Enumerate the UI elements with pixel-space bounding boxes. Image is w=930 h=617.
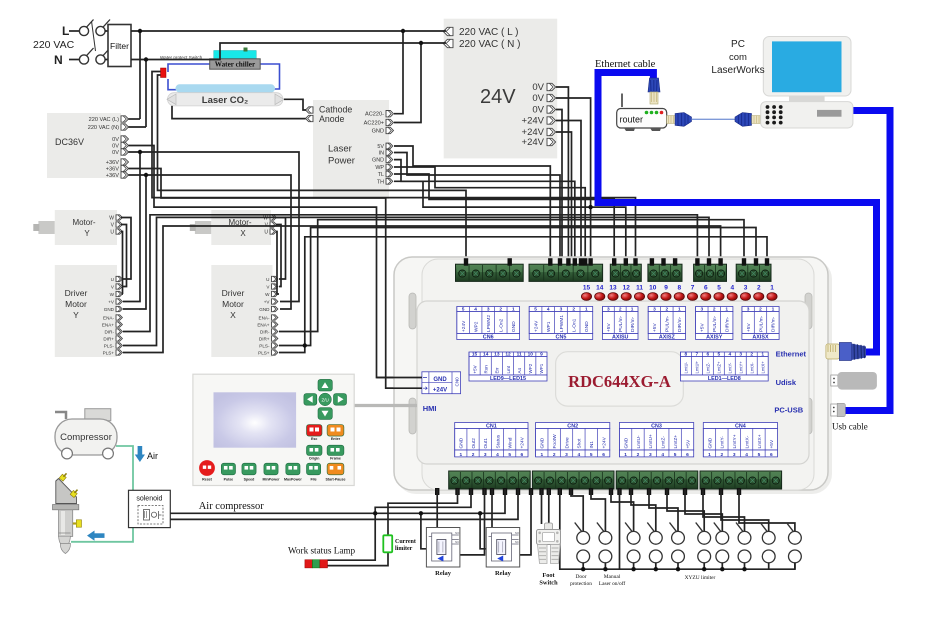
terminal block AXISY (694, 264, 727, 281)
switch S5 (672, 531, 685, 544)
junction dots bottom (419, 511, 423, 515)
svg-text:3: 3 (747, 307, 750, 313)
svg-text:8: 8 (685, 352, 688, 358)
svg-text:2: 2 (619, 307, 622, 313)
svg-text:+24V: +24V (522, 137, 545, 148)
svg-text:WP1: WP1 (546, 321, 552, 332)
svg-text:GND: GND (540, 437, 546, 448)
svg-text:13: 13 (494, 352, 500, 358)
RJ45 connector pair between router and PC (667, 116, 676, 124)
svg-text:5: 5 (717, 285, 721, 292)
svg-text:LmtU-: LmtU- (636, 435, 642, 448)
mounting slots (409, 293, 416, 329)
svg-text:+5V: +5V (606, 323, 612, 332)
svg-text:L-On1: L-On1 (571, 318, 577, 332)
svg-text:2: 2 (666, 307, 669, 313)
connector table LED9-LED15 (469, 352, 547, 357)
svg-text:3: 3 (733, 452, 736, 458)
wire L to laser AC220- (394, 31, 403, 114)
connector table CN0 (HMI) (422, 372, 461, 394)
svg-text:Driver: Driver (222, 288, 245, 298)
svg-text:+V: +V (264, 300, 271, 305)
connector table AXISZ (648, 307, 685, 312)
svg-text:GND: GND (511, 321, 517, 332)
bottom terminal strip (449, 471, 531, 489)
svg-text:DC36V: DC36V (55, 137, 84, 147)
wire to HMI GND (129, 146, 422, 378)
status LEDs row (581, 293, 591, 301)
wire to switch 4 (631, 489, 656, 531)
svg-text:solenoid: solenoid (136, 496, 162, 503)
svg-text:+24V: +24V (520, 436, 526, 448)
wire 24V 0V a (556, 87, 568, 263)
svg-text:LED9—LED15: LED9—LED15 (490, 376, 526, 382)
svg-text:3: 3 (607, 307, 610, 313)
svg-text:1: 1 (678, 307, 681, 313)
svg-text:PC-USB: PC-USB (774, 406, 803, 415)
svg-text:LmtU+: LmtU+ (695, 360, 700, 373)
svg-text:XYZU limiter: XYZU limiter (685, 575, 716, 581)
svg-text:LmtU-: LmtU- (684, 361, 689, 373)
svg-text:Manual: Manual (604, 574, 621, 580)
svg-text:3: 3 (484, 452, 487, 458)
svg-text:GND: GND (433, 377, 447, 383)
svg-text:LPWM2: LPWM2 (486, 315, 492, 332)
terminal block AXISZ (648, 264, 682, 281)
svg-text:IN: IN (379, 151, 384, 157)
wire 36V trunk to driverY GND (123, 175, 146, 309)
air tube compressor-solenoid (116, 446, 133, 490)
svg-text:11: 11 (517, 352, 522, 358)
wire switch common feed 2 (619, 489, 621, 569)
wire laser anode (172, 106, 306, 119)
svg-text:4: 4 (547, 307, 550, 313)
svg-text:Lmt: Lmt (506, 365, 511, 373)
solenoid valve (129, 490, 171, 527)
wire to switch 3 (611, 489, 634, 531)
wire to foot switch a (541, 489, 543, 524)
svg-text:+5V: +5V (685, 439, 691, 448)
junction dots (138, 29, 142, 33)
svg-text:DIR/m-: DIR/m- (677, 316, 683, 332)
svg-text:2: 2 (572, 307, 575, 313)
svg-text:220 VAC ( N ): 220 VAC ( N ) (459, 39, 521, 50)
wire to foot switch b (548, 489, 550, 524)
svg-text:Laser CO₂: Laser CO₂ (202, 95, 248, 106)
svg-text:Origin: Origin (309, 457, 320, 461)
svg-text:GND: GND (707, 437, 713, 448)
svg-text:N: N (54, 53, 63, 67)
HMI Esc button (307, 425, 323, 437)
wire N trunk down (145, 60, 147, 128)
terminal block CN5 (529, 264, 603, 281)
power supply 24V (444, 19, 558, 159)
wire L to switch (69, 30, 80, 32)
PC monitor (763, 37, 851, 97)
connector table AXISY (696, 307, 733, 312)
svg-text:GND: GND (372, 129, 384, 135)
ethernet RJ45 plug into controller (826, 344, 840, 359)
svg-text:1: 1 (585, 307, 588, 313)
switch mechanical link (92, 21, 96, 51)
svg-text:File: File (310, 477, 316, 481)
svg-text:PLS-: PLS- (259, 344, 270, 349)
power supply DC36V (47, 113, 121, 178)
svg-text:Out1: Out1 (483, 438, 489, 449)
connector table LED1-LED8 (680, 352, 768, 357)
svg-text:W: W (263, 216, 268, 222)
wire filter-N to 24V PSU (131, 43, 446, 60)
svg-text:1: 1 (761, 352, 764, 358)
svg-text:PUL/m-: PUL/m- (618, 315, 624, 332)
svg-text:+5V: +5V (652, 323, 658, 332)
svg-text:PLS+: PLS+ (103, 351, 115, 356)
svg-text:13: 13 (609, 285, 617, 292)
svg-text:DIR+: DIR+ (259, 337, 270, 342)
wire to HMI +24V (129, 169, 422, 389)
svg-text:4: 4 (745, 452, 748, 458)
svg-text:DIR-: DIR- (260, 330, 270, 335)
driver motor Y (55, 265, 117, 357)
svg-text:Cathode: Cathode (319, 105, 352, 115)
svg-text:DIR/m-: DIR/m- (630, 316, 636, 332)
svg-text:15: 15 (472, 352, 478, 358)
wire laser IN (394, 153, 560, 264)
HMI MinPower button (264, 463, 278, 475)
svg-text:PC: PC (731, 39, 745, 50)
svg-text:LmtZ-: LmtZ- (706, 362, 711, 374)
svg-text:Frame: Frame (330, 457, 341, 461)
switch S8 (738, 531, 751, 544)
wire 36V to driverX GND (146, 175, 291, 309)
svg-text:Start-Pause: Start-Pause (326, 477, 346, 481)
svg-text:U: U (266, 277, 269, 282)
svg-text:1: 1 (631, 307, 634, 313)
svg-text:limiter: limiter (395, 546, 413, 552)
svg-text:Y: Y (84, 229, 90, 238)
wire to switch 1 (571, 489, 583, 531)
work status lamp (305, 560, 313, 568)
svg-text:2: 2 (472, 452, 475, 458)
svg-text:1: 1 (770, 285, 774, 292)
svg-text:GND: GND (459, 437, 465, 448)
svg-text:0V: 0V (532, 82, 544, 93)
pin cathode (306, 107, 314, 113)
wire to switch 9 (721, 489, 769, 531)
wire driverY DIR- (123, 215, 697, 332)
HMI cable to controller (354, 404, 417, 407)
svg-text:LaserWorks: LaserWorks (711, 65, 764, 76)
wire N trunk pin (129, 126, 147, 128)
svg-text:Current: Current (395, 539, 416, 545)
svg-text:5: 5 (674, 452, 677, 458)
svg-text:0V: 0V (532, 105, 544, 116)
svg-text:LmtU+: LmtU+ (648, 434, 654, 448)
wire to filter (105, 31, 108, 60)
wire L trunk pin (129, 118, 141, 120)
terminal wire stubs (top) (464, 258, 468, 266)
svg-text:1: 1 (708, 452, 711, 458)
wire laser WP (394, 167, 585, 263)
switch S1 (577, 531, 590, 544)
wire to relay1 coil (421, 513, 432, 549)
svg-text:Work status Lamp: Work status Lamp (288, 546, 356, 556)
svg-text:2: 2 (759, 307, 762, 313)
connector table CN6 (457, 307, 520, 312)
svg-text:A4: A4 (517, 367, 522, 373)
svg-text:1: 1 (512, 307, 515, 313)
svg-text:LED1—LED8: LED1—LED8 (708, 376, 741, 382)
wire driverX DIR- (279, 220, 744, 332)
svg-text:2: 2 (553, 452, 556, 458)
svg-text:24V: 24V (480, 86, 516, 108)
svg-text:NC: NC (455, 540, 459, 544)
RJ45 plug vertical above router (648, 78, 660, 92)
svg-text:WP2: WP2 (473, 321, 479, 332)
driver motor X (211, 265, 272, 357)
svg-text:+36V: +36V (106, 167, 119, 173)
svg-text:11: 11 (636, 285, 643, 292)
HMI Pulse button (221, 463, 235, 475)
svg-text:Relay: Relay (435, 570, 452, 577)
svg-text:W: W (265, 292, 270, 297)
svg-text:Z/U: Z/U (321, 397, 328, 402)
svg-text:+24V: +24V (522, 116, 545, 127)
svg-text:Motor-: Motor- (72, 218, 95, 227)
controller inner panel (417, 301, 809, 464)
svg-text:4: 4 (474, 307, 477, 313)
wire L trunk down (139, 31, 141, 119)
svg-text:NC: NC (515, 540, 519, 544)
svg-text:Ethernet cable: Ethernet cable (595, 59, 656, 70)
wire 36V trunk to driverY +V (123, 152, 140, 302)
RDC label plate (556, 352, 684, 406)
wire water protect switch A (152, 72, 636, 264)
svg-text:X: X (230, 310, 236, 320)
svg-text:Air compressor: Air compressor (199, 501, 265, 512)
svg-text:1: 1 (725, 307, 728, 313)
svg-text:3: 3 (565, 452, 568, 458)
wire to switch 7 (685, 489, 722, 531)
svg-text:2: 2 (721, 452, 724, 458)
controller RDC644XG-A enclosure (396, 259, 832, 494)
wire 24V +24V b (556, 132, 572, 263)
svg-text:LmtZ+: LmtZ+ (717, 361, 722, 374)
svg-text:5: 5 (717, 352, 720, 358)
svg-text:3: 3 (560, 307, 563, 313)
connector table AXISX (742, 307, 779, 312)
wire filter-L to 24V PSU (131, 30, 446, 32)
svg-text:15: 15 (583, 285, 591, 292)
svg-text:ENA+: ENA+ (257, 323, 269, 328)
wire driverX PLS- (279, 228, 756, 346)
svg-text:RDC644XG-A: RDC644XG-A (568, 372, 671, 391)
switch S4 (649, 531, 662, 544)
wire 24V 0V b (556, 98, 591, 263)
svg-text:Laser on/off: Laser on/off (599, 580, 626, 587)
svg-text:Water chiller: Water chiller (215, 61, 256, 69)
svg-text:LmtX+: LmtX+ (757, 434, 763, 448)
svg-text:3: 3 (653, 307, 656, 313)
svg-text:PUL/m-: PUL/m- (758, 315, 764, 332)
svg-text:Relay: Relay (495, 570, 512, 577)
wire 24V 0V c (556, 110, 562, 264)
svg-text:GND: GND (623, 437, 629, 448)
svg-text:GND: GND (104, 307, 115, 312)
svg-text:LmtY-: LmtY- (728, 362, 733, 373)
svg-text:+36V: +36V (106, 160, 119, 166)
terminal wire stubs (bottom) (435, 488, 439, 495)
svg-text:5: 5 (758, 452, 761, 458)
HMI display panel (193, 374, 354, 485)
svg-text:Ethernet: Ethernet (776, 350, 807, 359)
svg-text:Air: Air (147, 451, 158, 461)
wire driverY PLS- (123, 217, 709, 345)
svg-text:+24V: +24V (433, 388, 447, 394)
wire current limiter to lamp (328, 552, 389, 565)
ethernet cable router-to-controller (598, 73, 877, 353)
svg-text:U: U (264, 230, 268, 236)
svg-text:DIR/m-: DIR/m- (771, 316, 777, 332)
svg-text:+36V: +36V (106, 173, 119, 179)
svg-text:PLS+: PLS+ (258, 351, 270, 356)
wire laser 5V (394, 146, 550, 263)
svg-text:AXISY: AXISY (706, 334, 723, 340)
HMI File button (307, 463, 321, 475)
wire to work status lamp (328, 489, 472, 560)
svg-text:LmtY+: LmtY+ (739, 361, 744, 374)
HMI Frame button (327, 445, 344, 455)
terminal block CN6 (456, 264, 524, 281)
HMI Origin button (307, 445, 323, 455)
water protect switch (red) (161, 68, 167, 78)
svg-text:DIR-: DIR- (105, 330, 115, 335)
motor Y (38, 221, 54, 234)
laser head (56, 479, 77, 504)
svg-text:CN6: CN6 (483, 334, 494, 340)
svg-text:L: L (62, 24, 69, 38)
svg-text:GND: GND (372, 158, 384, 164)
svg-text:5: 5 (590, 452, 593, 458)
svg-text:U: U (110, 230, 114, 236)
water chiller (214, 51, 257, 59)
svg-text:4: 4 (728, 352, 731, 358)
svg-text:+5V: +5V (769, 439, 775, 448)
wire laser TH (394, 181, 626, 263)
svg-text:LmtX-: LmtX- (744, 435, 750, 448)
svg-text:CN5: CN5 (556, 334, 567, 340)
switch S2 (599, 531, 612, 544)
svg-text:PUL/m-: PUL/m- (712, 315, 718, 332)
svg-text:5V: 5V (377, 144, 384, 150)
wire laser GND (394, 160, 575, 263)
svg-text:WP: WP (375, 165, 384, 171)
filter box (108, 25, 131, 67)
terminal block AXISX (736, 264, 771, 281)
svg-text:5: 5 (508, 452, 511, 458)
HMI screen (214, 392, 297, 447)
wire motorY V (121, 225, 127, 287)
svg-text:1: 1 (624, 452, 627, 458)
wire motorX W (276, 218, 286, 280)
wire to relay2 right (520, 489, 531, 555)
svg-text:12: 12 (505, 352, 511, 358)
svg-text:HMI: HMI (423, 404, 437, 413)
svg-text:Shot: Shot (577, 438, 583, 449)
wire to relay2 contact (491, 489, 493, 528)
svg-text:0V: 0V (532, 93, 544, 104)
svg-text:WP1: WP1 (539, 363, 544, 373)
svg-text:9: 9 (664, 285, 668, 292)
svg-text:3: 3 (487, 307, 490, 313)
svg-text:Power: Power (328, 156, 355, 167)
wire N to laser AC220+ (394, 43, 421, 123)
wire water protect switch B (158, 75, 467, 263)
svg-text:2: 2 (757, 285, 761, 292)
svg-text:ENA-: ENA- (103, 316, 114, 321)
svg-text:6: 6 (521, 452, 524, 458)
svg-text:4: 4 (661, 452, 664, 458)
connector table CN1 (455, 423, 528, 429)
laser CO2 tube (176, 84, 276, 92)
svg-text:Speed: Speed (244, 477, 255, 481)
svg-text:Switch: Switch (539, 580, 558, 587)
svg-text:3: 3 (700, 307, 703, 313)
HMI arrow keypad (318, 379, 332, 391)
wire 24V +24V a (556, 121, 581, 264)
switch S9 (762, 531, 775, 544)
connector table AXISU (602, 307, 638, 312)
svg-text:Drive: Drive (564, 437, 570, 449)
svg-text:AXISU: AXISU (612, 334, 629, 340)
svg-text:U: U (111, 277, 114, 282)
svg-text:FootW: FootW (552, 434, 558, 449)
svg-text:220 VAC (L): 220 VAC (L) (89, 117, 120, 123)
svg-text:Motor: Motor (65, 299, 87, 309)
svg-text:Y: Y (73, 310, 79, 320)
svg-text:6: 6 (704, 285, 708, 292)
switch S10 (789, 531, 802, 544)
svg-text:9: 9 (540, 352, 543, 358)
svg-text:4: 4 (578, 452, 581, 458)
motor X (195, 221, 211, 234)
svg-text:14: 14 (483, 352, 489, 358)
svg-text:TH: TH (377, 179, 384, 185)
wire to solenoid 2 (170, 489, 518, 519)
laser power supply box (313, 100, 389, 199)
wire driverY PLS+ (123, 226, 721, 353)
svg-text:6: 6 (707, 352, 710, 358)
wire motorY W (121, 218, 131, 280)
current limiter (383, 535, 392, 552)
svg-text:Esc: Esc (311, 437, 317, 441)
pin anode (306, 115, 314, 121)
wire to relay1 contact (436, 489, 438, 528)
svg-text:Status: Status (495, 434, 501, 448)
svg-text:14: 14 (596, 285, 604, 292)
svg-text:4: 4 (496, 452, 499, 458)
wire to switch 5 (649, 489, 678, 531)
svg-text:7: 7 (696, 352, 699, 358)
svg-text:1: 1 (540, 452, 543, 458)
svg-text:DIR+: DIR+ (103, 337, 114, 342)
svg-text:+24V: +24V (601, 436, 607, 448)
svg-text:3: 3 (739, 352, 742, 358)
connector table CN5 (529, 307, 593, 312)
svg-text:6: 6 (602, 452, 605, 458)
switch S7 (716, 531, 729, 544)
wire HMI +24V segment (386, 387, 422, 389)
